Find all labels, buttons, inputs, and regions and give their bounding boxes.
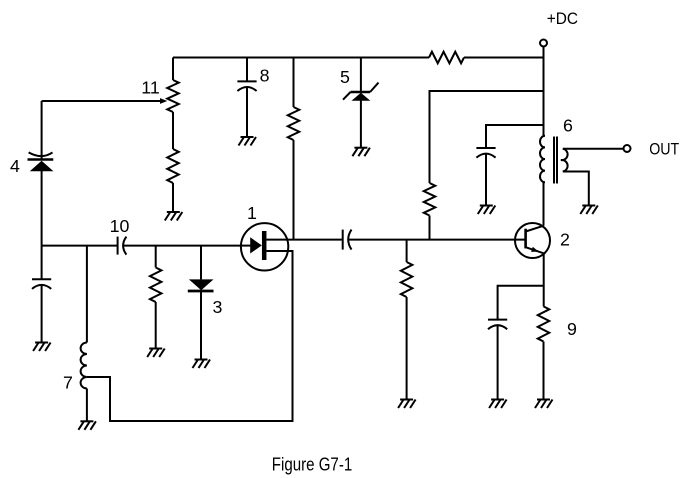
svg-text:5: 5 — [340, 67, 350, 87]
svg-text:1: 1 — [247, 203, 257, 223]
svg-text:7: 7 — [63, 373, 73, 393]
svg-text:11: 11 — [141, 78, 160, 98]
svg-text:9: 9 — [567, 319, 577, 339]
svg-text:+DC: +DC — [547, 10, 578, 28]
svg-text:8: 8 — [260, 66, 270, 86]
svg-text:Figure G7-1: Figure G7-1 — [272, 454, 353, 475]
svg-text:OUT: OUT — [649, 141, 679, 159]
svg-text:2: 2 — [560, 229, 570, 249]
svg-text:3: 3 — [213, 297, 223, 317]
svg-text:4: 4 — [10, 156, 20, 176]
svg-text:10: 10 — [110, 216, 130, 236]
svg-text:6: 6 — [563, 116, 573, 136]
